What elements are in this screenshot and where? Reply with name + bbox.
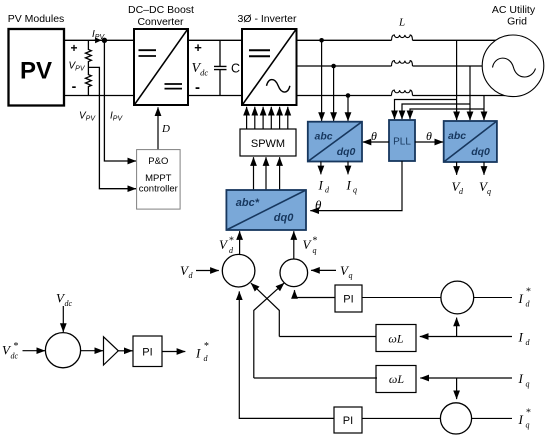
svg-text:AC Utility: AC Utility xyxy=(492,4,536,16)
svg-text:dq0: dq0 xyxy=(274,212,294,224)
svg-text:q: q xyxy=(313,246,317,255)
svg-text:+: + xyxy=(194,40,202,55)
svg-text:-: - xyxy=(72,78,77,94)
svg-text:P&O: P&O xyxy=(148,156,168,167)
svg-text:I: I xyxy=(195,346,201,361)
svg-text:q: q xyxy=(487,187,491,196)
svg-text:θ: θ xyxy=(371,129,377,143)
svg-text:C: C xyxy=(231,62,240,76)
svg-text:I: I xyxy=(518,291,524,306)
svg-text:I: I xyxy=(346,178,352,193)
svg-text:*: * xyxy=(312,236,317,247)
svg-text:abc*: abc* xyxy=(236,197,260,209)
svg-text:PLL: PLL xyxy=(393,137,411,148)
svg-text:*: * xyxy=(204,341,209,352)
svg-text:dq0: dq0 xyxy=(471,146,490,158)
svg-text:Converter: Converter xyxy=(137,16,184,28)
svg-text:abc: abc xyxy=(315,130,333,142)
svg-text:PI: PI xyxy=(343,294,353,306)
svg-text:PI: PI xyxy=(142,347,152,359)
svg-text:L: L xyxy=(398,17,405,29)
svg-text:q: q xyxy=(526,421,530,430)
svg-text:DC–DC Boost: DC–DC Boost xyxy=(128,4,194,16)
svg-text:dc: dc xyxy=(11,352,19,361)
svg-text:ωL: ωL xyxy=(388,331,403,345)
svg-text:ωL: ωL xyxy=(389,372,404,386)
svg-text:+: + xyxy=(70,41,77,55)
svg-text:θ: θ xyxy=(315,198,322,213)
svg-text:I: I xyxy=(318,178,324,193)
svg-text:θ: θ xyxy=(426,129,432,143)
svg-text:-: - xyxy=(195,79,200,96)
svg-text:dc: dc xyxy=(65,299,73,308)
svg-text:controller: controller xyxy=(139,184,178,195)
svg-text:MPPT: MPPT xyxy=(145,173,172,184)
svg-text:abc: abc xyxy=(448,130,466,142)
svg-text:PV: PV xyxy=(20,58,52,85)
svg-text:D: D xyxy=(161,123,170,135)
svg-text:*: * xyxy=(526,287,531,298)
svg-text:*: * xyxy=(13,341,18,352)
svg-text:q: q xyxy=(353,186,357,195)
svg-text:3Ø - Inverter: 3Ø - Inverter xyxy=(238,13,297,25)
svg-text:Grid: Grid xyxy=(507,16,527,28)
svg-text:PV Modules: PV Modules xyxy=(8,13,65,25)
svg-text:q: q xyxy=(526,380,530,389)
svg-text:SPWM: SPWM xyxy=(251,138,285,150)
svg-text:I: I xyxy=(518,330,524,345)
svg-text:q: q xyxy=(349,271,353,280)
svg-text:I: I xyxy=(518,371,524,386)
svg-text:I: I xyxy=(518,412,524,427)
svg-text:dq0: dq0 xyxy=(337,146,356,158)
svg-text:*: * xyxy=(229,236,234,247)
svg-text:*: * xyxy=(526,408,531,419)
svg-text:PI: PI xyxy=(343,415,353,427)
